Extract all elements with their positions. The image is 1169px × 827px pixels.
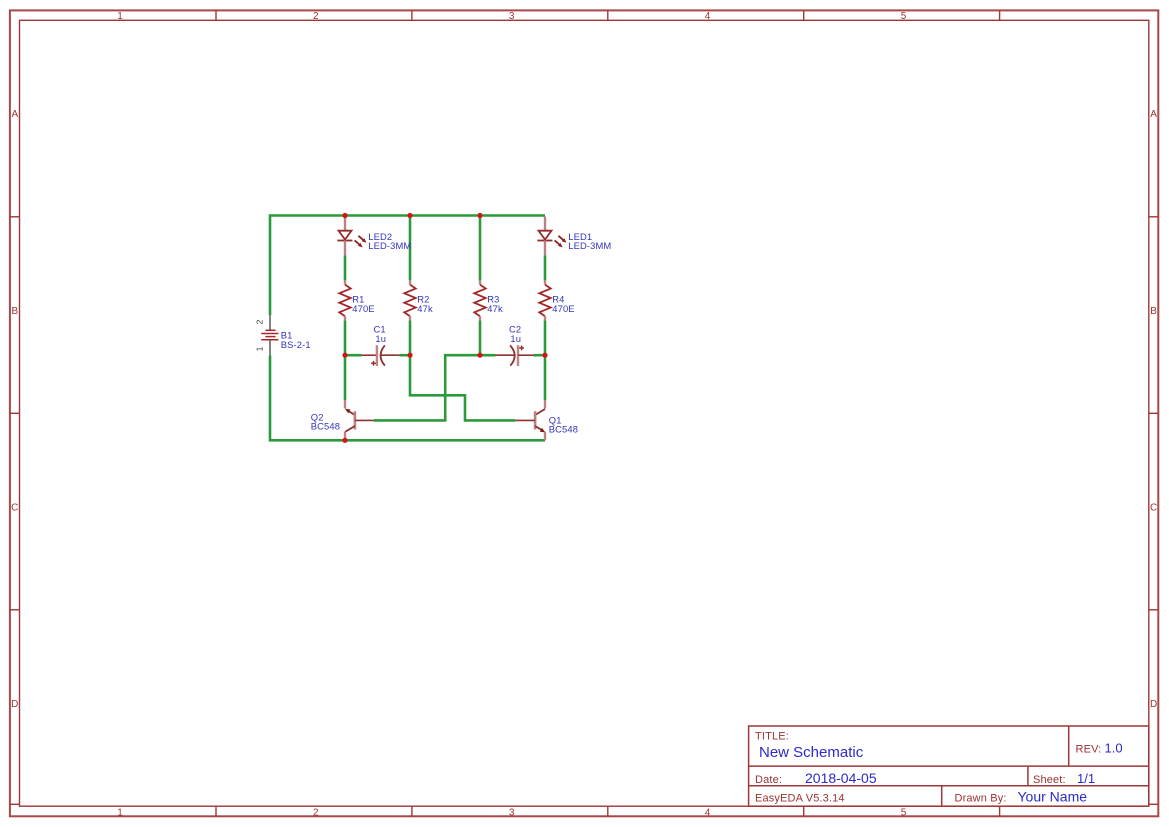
capacitor C2 labels	[509, 323, 521, 344]
capacitor C1	[362, 345, 400, 366]
svg-text:47k: 47k	[487, 303, 503, 314]
rev label	[1076, 744, 1102, 756]
LED1 labels	[568, 231, 611, 251]
resistor R4	[539, 280, 550, 320]
resistor R2	[404, 280, 415, 320]
wire col1 C-row to Q2 collector	[344, 355, 347, 400]
svg-text:BC548: BC548	[311, 420, 340, 431]
svg-text:2: 2	[313, 807, 319, 818]
svg-text:47k: 47k	[417, 303, 433, 314]
wire C-row right of C1	[399, 354, 410, 357]
svg-text:A: A	[11, 109, 18, 120]
battery B1 pin number 1	[255, 346, 265, 351]
junction C-row col3	[477, 353, 482, 358]
svg-text:Drawn By:: Drawn By:	[955, 793, 1007, 805]
battery B1	[261, 315, 278, 355]
svg-text:Sheet:: Sheet:	[1033, 774, 1066, 786]
frame column ticks bottom	[216, 806, 1000, 816]
wire col2 C-row jog to Q1 base	[410, 355, 515, 420]
capacitor C1 labels	[374, 323, 387, 344]
svg-text:2018-04-05: 2018-04-05	[805, 770, 877, 786]
resistor R3	[474, 280, 485, 320]
wire C-row right of C2	[534, 354, 546, 357]
title value New Schematic	[759, 744, 864, 761]
rev value	[1105, 741, 1123, 756]
svg-text:D: D	[1150, 699, 1157, 710]
junction C-row col4	[542, 353, 547, 358]
wire C-row left of C1	[345, 354, 362, 357]
sheet value	[1077, 771, 1095, 786]
TITLEBLOCK	[749, 726, 1149, 806]
svg-text:LED-3MM: LED-3MM	[568, 240, 611, 251]
svg-text:4: 4	[705, 807, 711, 818]
transistor Q1 labels	[549, 414, 578, 434]
svg-text:B: B	[1150, 306, 1157, 317]
svg-text:LED-3MM: LED-3MM	[368, 240, 411, 251]
svg-text:D: D	[11, 699, 18, 710]
CIRCUIT	[255, 213, 612, 443]
svg-text:1/1: 1/1	[1077, 771, 1095, 786]
resistor R1 labels	[352, 294, 374, 314]
svg-text:A: A	[1150, 109, 1157, 120]
svg-text:470E: 470E	[552, 303, 574, 314]
LED2 labels	[368, 231, 411, 251]
transistor Q2	[345, 400, 374, 440]
svg-text:1u: 1u	[510, 333, 521, 344]
svg-text:B: B	[11, 306, 18, 317]
frame column ticks top	[216, 10, 1000, 20]
frame bottom column numbers	[117, 807, 907, 818]
wire Q2 base net to C-row	[374, 355, 445, 420]
title block outline	[749, 726, 1149, 806]
resistor R3 labels	[487, 294, 503, 314]
wire C-row middle to C2	[445, 355, 495, 356]
frame top column numbers	[117, 11, 907, 22]
svg-text:New Schematic: New Schematic	[759, 744, 864, 761]
svg-text:BC548: BC548	[549, 423, 578, 434]
svg-text:EasyEDA V5.3.14: EasyEDA V5.3.14	[755, 793, 845, 805]
frame row ticks left	[10, 217, 20, 805]
LED1	[537, 217, 566, 256]
frame right row letters	[1150, 109, 1157, 710]
svg-text:5: 5	[901, 11, 907, 22]
wire col4 R4 to C-row	[544, 320, 547, 355]
drawn by label	[955, 793, 1007, 805]
transistor Q1	[515, 400, 545, 440]
LED2	[337, 217, 366, 256]
svg-text:REV:: REV:	[1076, 744, 1102, 756]
wire col3 top rail to R3	[479, 216, 482, 281]
svg-text:470E: 470E	[352, 303, 374, 314]
resistor R4 labels	[552, 294, 574, 314]
svg-text:BS-2-1: BS-2-1	[281, 339, 311, 350]
wire col3 R3 to C-row	[479, 320, 482, 355]
svg-text:TITLE:: TITLE:	[755, 731, 789, 743]
capacitor C2	[496, 345, 534, 366]
svg-text:1: 1	[117, 807, 123, 818]
svg-text:1: 1	[255, 346, 265, 351]
svg-text:Your Name: Your Name	[1018, 789, 1088, 805]
junction top rail col3	[477, 213, 482, 218]
wire col4 C-row to Q1 collector	[544, 355, 547, 400]
easyeda version	[755, 793, 845, 805]
svg-text:2: 2	[255, 319, 265, 324]
junction top rail col1	[342, 213, 347, 218]
transistor Q2 labels	[311, 411, 340, 431]
title label	[755, 731, 789, 743]
svg-text:1: 1	[117, 11, 123, 22]
date label	[755, 774, 782, 786]
wire top rail with battery column top	[270, 216, 545, 316]
drawn by value	[1018, 789, 1088, 805]
wire col1 LED2 to R1	[344, 255, 347, 280]
svg-text:2: 2	[313, 11, 319, 22]
svg-text:4: 4	[705, 11, 711, 22]
battery B1 pin number 2	[255, 319, 265, 324]
wire col2 top rail to R2	[409, 216, 412, 281]
resistor R2 labels	[417, 294, 433, 314]
frame left row letters	[11, 109, 18, 710]
battery B1 labels	[281, 329, 311, 350]
wire bottom rail with battery column bottom	[270, 355, 545, 440]
svg-text:C: C	[1150, 503, 1157, 514]
svg-text:5: 5	[901, 807, 907, 818]
svg-text:1u: 1u	[375, 333, 386, 344]
junction C-row col1	[342, 353, 347, 358]
wire col1 R1 to C-row	[344, 320, 347, 355]
resistor R1	[339, 280, 350, 320]
wire col2 R2 to C-row	[409, 320, 412, 355]
junction top rail col2	[407, 213, 412, 218]
svg-text:C: C	[11, 503, 18, 514]
svg-text:Date:: Date:	[755, 774, 782, 786]
svg-text:1.0: 1.0	[1105, 741, 1123, 756]
svg-text:3: 3	[509, 807, 515, 818]
junction C-row col2	[407, 353, 412, 358]
date value	[805, 770, 877, 786]
svg-text:3: 3	[509, 11, 515, 22]
wire col4 LED1 to R4	[544, 255, 547, 280]
junction bottom rail col1	[342, 438, 347, 443]
sheet label	[1033, 774, 1066, 786]
frame row ticks right	[1149, 217, 1159, 805]
